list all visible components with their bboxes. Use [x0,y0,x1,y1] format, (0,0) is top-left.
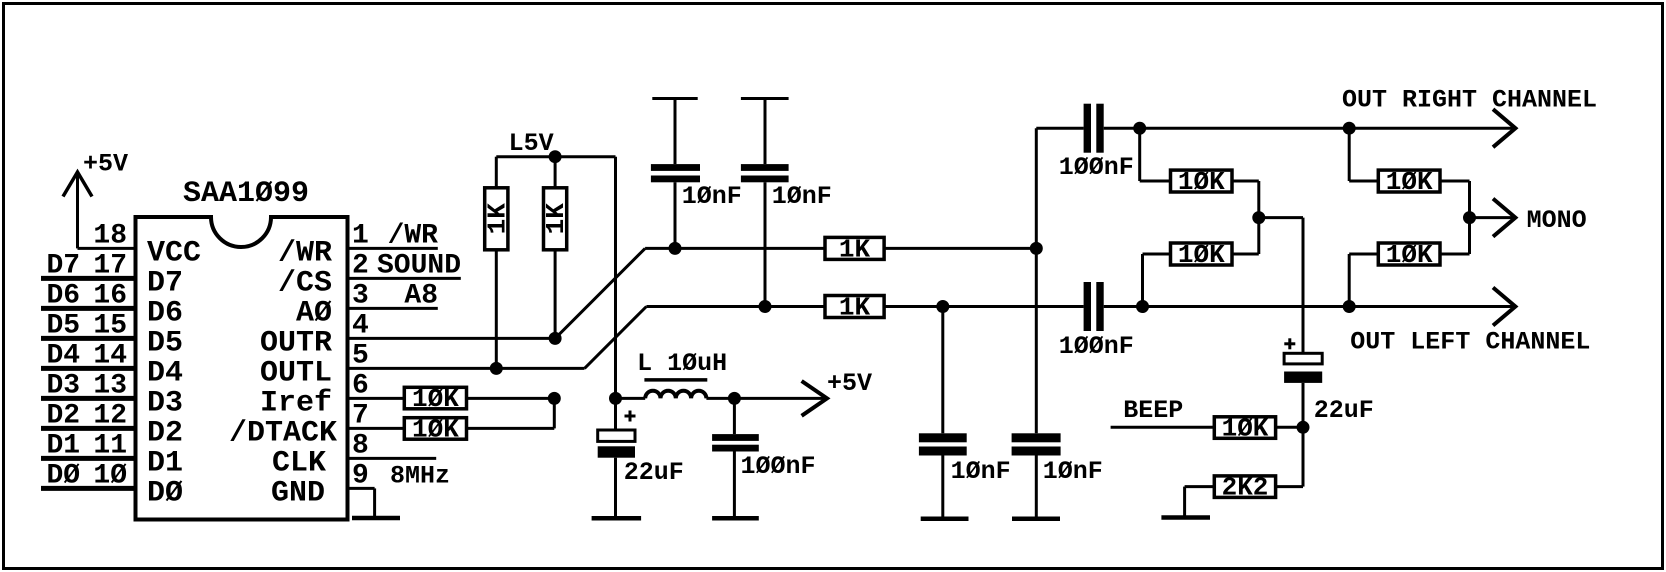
wire OUTR column vertical [1035,128,1038,433]
node OUT RIGHT 10K left [1133,122,1146,135]
wire after inductor [706,397,824,400]
plus sign 22uF right [1284,342,1295,345]
svg-text:OUT RIGHT CHANNEL: OUT RIGHT CHANNEL [1342,86,1597,115]
ground 22uF left [592,516,642,521]
svg-text:1ØK: 1ØK [1178,240,1225,270]
capacitor 10nF top right terminal bar [741,97,789,100]
wire D2 pin 12 [41,426,136,431]
svg-text:15: 15 [93,310,127,341]
svg-text:4: 4 [352,310,369,341]
capacitor 100nF +5V plates [712,434,759,441]
svg-text:D7: D7 [147,266,183,300]
plus sign 22uF left [625,415,636,418]
svg-text:D5: D5 [147,326,183,360]
node OUT LEFT 10K [1136,300,1149,313]
wire down from OUT RIGHT to 10K [1138,128,1141,181]
node L5V bottom [609,392,622,405]
svg-text:D3: D3 [147,386,183,420]
resistor 10K mono left [1378,243,1440,265]
wire OUT LEFT row [1104,305,1513,308]
capacitor 10nF top left terminal bar [652,97,697,100]
wire pin 18 [78,247,136,250]
svg-text:CLK: CLK [272,446,326,480]
node 10nF OUTR [669,242,682,255]
svg-text:1ØK: 1ØK [1178,167,1225,197]
svg-text:VCC: VCC [147,236,201,270]
svg-text:1K: 1K [482,203,512,235]
wire OUTL row left [646,305,825,308]
svg-text:/WR: /WR [278,236,332,270]
capacitor 22uF electrolytic left lead [614,398,617,430]
svg-text:OUTR: OUTR [260,326,332,360]
svg-text:+5V: +5V [827,369,872,398]
svg-text:OUTL: OUTL [260,356,332,390]
svg-text:3: 3 [352,280,369,311]
wire mono node bottom [1440,253,1470,256]
arrow MONO [1493,199,1515,237]
capacitor 10nF OUTL lead [941,307,944,434]
svg-text:14: 14 [93,340,127,371]
arrow +5V right [802,381,827,416]
wire D3 pin 13 [41,396,136,401]
svg-text:/WR: /WR [388,220,439,251]
wire pin 4 OUTR [348,337,556,340]
svg-text:1: 1 [352,220,369,251]
capacitor 100nF right bottom plates [1084,282,1091,331]
svg-text:Iref: Iref [260,386,332,420]
capacitor 22uF left plates [598,430,635,441]
ground 100nF +5V [712,516,759,521]
svg-text:SAA1Ø99: SAA1Ø99 [183,177,309,211]
svg-text:GND: GND [271,476,325,510]
wire 10K to beep node [1232,180,1259,183]
wire mono bottom 10K leads [1348,254,1351,307]
node L5V [549,150,562,163]
ground 2K2 [1161,515,1210,520]
svg-text:BEEP: BEEP [1123,396,1183,425]
svg-text:1ØnF: 1ØnF [682,182,742,211]
+5V power symbol at pin 18 [63,172,92,197]
svg-text:12: 12 [93,400,127,431]
capacitor 10nF top left bottom lead [674,182,677,248]
svg-text:11: 11 [93,430,127,461]
ground 10nF OUTR [1012,516,1060,521]
svg-text:5: 5 [352,340,369,371]
capacitor 10nF OUTR plates [1012,433,1061,442]
capacitor 22uF right bottom lead [1302,383,1305,427]
capacitor 100nF +5V bottom lead [733,452,736,517]
svg-text:13: 13 [93,370,127,401]
svg-text:7: 7 [352,400,369,431]
svg-text:16: 16 [93,280,127,311]
resistor 10K mono right [1378,170,1440,192]
wire 10K bottom to beep node [1232,253,1259,256]
wire junction vertical [553,398,556,428]
svg-text:1ØK: 1ØK [412,414,459,444]
wire beep node down [1302,427,1305,486]
wire 10K beep to node [1276,426,1303,429]
wire mono arrow [1470,216,1514,219]
svg-text:1ØK: 1ØK [412,384,459,414]
wire mono node top [1440,180,1470,183]
wire 10K bottom left lead [1143,253,1171,256]
svg-text:DØ: DØ [147,476,183,510]
svg-text:1Ø: 1Ø [93,460,127,491]
node 10nF OUTL [759,300,772,313]
node beep injection [1297,421,1310,434]
wire 1K right bottom lead [554,250,557,339]
svg-text:D1: D1 [47,430,81,461]
svg-text:17: 17 [93,250,127,281]
svg-text:1K: 1K [839,292,871,322]
svg-text:1ØØnF: 1ØØnF [1059,332,1134,361]
svg-text:D7: D7 [47,250,81,281]
wire pin 9 GND [348,487,375,490]
inductor L 10uH top bar [644,378,707,382]
node OUTR pin4 [549,332,562,345]
svg-text:OUT LEFT CHANNEL: OUT LEFT CHANNEL [1350,328,1590,357]
svg-text:L5V: L5V [509,129,554,158]
wire OUT RIGHT row [1104,127,1513,130]
wire pin 1 [348,247,438,250]
wire D7 pin 17 [41,276,136,281]
svg-text:D4: D4 [47,340,81,371]
wire D6 pin 16 [41,306,136,311]
wire diagonal OUTL [585,307,647,369]
svg-text:AØ: AØ [296,296,332,330]
capacitor 10nF top right plates [741,164,789,171]
capacitor 10nF top left plates [651,164,700,171]
svg-text:D2: D2 [147,416,183,450]
resistor 2K2 [1214,476,1275,498]
svg-text:D3: D3 [47,370,81,401]
svg-text:2K2: 2K2 [1222,473,1269,503]
capacitor 10nF OUTL plates [919,433,967,442]
capacitor 100nF +5V lead [733,398,736,434]
svg-text:1ØØnF: 1ØØnF [741,452,816,481]
svg-text:1ØnF: 1ØnF [1043,457,1103,486]
svg-text:/DTACK: /DTACK [229,416,337,450]
svg-text:/CS: /CS [278,266,332,300]
svg-text:6: 6 [352,370,369,401]
wire L5V vertical down [614,157,617,399]
wire D1 pin 11 [41,456,136,461]
wire pin 6 Iref [348,397,405,400]
node mono [1463,211,1476,224]
wire 2K2 to ground [1185,485,1215,488]
wire pin 9 down to ground [373,488,376,516]
capacitor 10nF top left lead [674,99,677,165]
wire L5V rail [496,155,615,158]
wire pin 5 OUTL [348,367,585,370]
svg-text:1K: 1K [541,203,571,235]
resistor 10K mix right-to-beep [1171,170,1233,192]
wire beep 22uF vertical [1302,218,1305,354]
IC U1 SAA1099 body [136,217,348,520]
wire DTACK 10K to junction [467,427,555,430]
node dot Iref junction [548,392,561,405]
wire OUT RIGHT row to cap [1036,127,1083,130]
wire diagonal OUTR [555,248,645,338]
wire beep node to 22uF [1259,216,1303,219]
svg-text:18: 18 [93,220,127,251]
resistor R DTACK 10K [404,418,466,440]
wire D5 pin 15 [41,336,136,341]
svg-text:SOUND: SOUND [377,250,461,281]
svg-text:A8: A8 [404,280,438,311]
svg-text:DØ: DØ [47,460,81,491]
node OUT LEFT mono tap [1343,300,1356,313]
arrow OUT RIGHT [1493,109,1515,147]
ground IC pin 9 [352,516,400,521]
svg-text:22uF: 22uF [624,458,684,487]
svg-text:22uF: 22uF [1314,396,1374,425]
resistor 1K right vertical [544,188,567,250]
svg-text:9: 9 [352,460,369,491]
svg-text:D6: D6 [147,296,183,330]
wire D4 pin 14 [41,366,136,371]
capacitor 10nF top right bottom lead [764,182,767,306]
capacitor 10nF top right lead [764,99,767,165]
svg-text:+5V: +5V [83,150,128,179]
svg-text:D6: D6 [47,280,81,311]
svg-text:D2: D2 [47,400,81,431]
ground 10nF OUTL [921,516,969,521]
wire pin 7 /DTACK [348,427,405,430]
svg-text:1ØK: 1ØK [1386,240,1433,270]
wire pin 8 CLK [348,457,437,460]
arrow OUT LEFT [1493,288,1515,326]
wire OUTR row left [645,247,825,250]
resistor R Iref 10K [404,387,466,409]
svg-text:1ØnF: 1ØnF [951,457,1011,486]
node 10nF OUTL bottom [936,300,949,313]
wire 1K left top lead [495,157,498,188]
node OUT RIGHT mono tap [1343,122,1356,135]
svg-text:1ØK: 1ØK [1386,167,1433,197]
svg-text:D1: D1 [147,446,183,480]
svg-text:D5: D5 [47,310,81,341]
svg-text:D4: D4 [147,356,183,390]
resistor 10K mix left-to-beep [1171,243,1233,265]
svg-text:1K: 1K [839,234,871,264]
capacitor 100nF right top plates [1084,104,1091,153]
resistor 1K OUTL [825,296,884,318]
svg-text:8: 8 [352,430,369,461]
wire D0 pin 10 [41,486,136,491]
resistor 10K beep [1214,417,1275,439]
node beep mix [1252,211,1265,224]
resistor 1K left vertical [485,188,508,250]
svg-text:1ØØnF: 1ØØnF [1059,153,1134,182]
svg-text:L 1ØuH: L 1ØuH [637,349,727,378]
wire pin 2 [348,277,461,280]
svg-text:MONO: MONO [1527,206,1587,235]
capacitor 10nF OUTR bottom lead [1035,456,1038,517]
wire OUTL after 1K [884,305,1084,308]
wire BEEP [1111,426,1215,429]
node OUTR column [1030,242,1043,255]
wire mono top 10K leads [1348,128,1351,181]
svg-text:2: 2 [352,250,369,281]
svg-text:1ØnF: 1ØnF [772,182,832,211]
node 100nF +5V [728,392,741,405]
capacitor 10nF OUTL bottom lead [941,456,944,517]
wire 1K left bottom lead [495,250,498,369]
node OUTL pin5 [490,362,503,375]
wire +5V power row [616,397,646,400]
wire Iref 10K to junction [467,397,555,400]
wire OUTR after 1K [884,247,1036,250]
resistor 1K OUTR [825,237,884,259]
wire 1K right top lead [554,157,557,188]
svg-text:1ØK: 1ØK [1222,413,1269,443]
inductor L 10uH coil [645,391,706,399]
svg-text:8MHz: 8MHz [390,461,450,490]
capacitor 22uF right plates [1284,353,1322,364]
wire pin 3 [348,307,438,310]
capacitor 22uF left bottom lead [614,458,617,517]
